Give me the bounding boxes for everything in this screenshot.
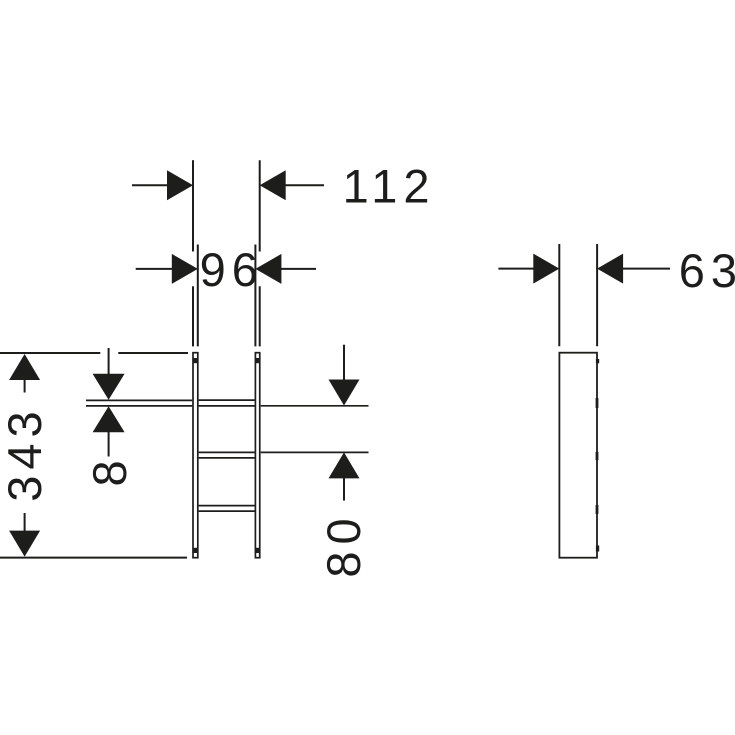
extension line 63 right — [596, 244, 598, 346]
rung1 left extension (8 dim) — [86, 399, 192, 401]
dimension 96 left tail — [136, 268, 173, 270]
arrowhead 96 left — [172, 254, 198, 284]
side view body — [559, 353, 597, 558]
extension line 63 left — [558, 244, 560, 346]
extension line 96 right — [254, 245, 256, 347]
dimension 96 right tail — [280, 268, 316, 270]
svg-text:63: 63 — [679, 244, 735, 297]
arrowhead 8 upper — [93, 374, 125, 400]
side view rung 3 edge — [596, 505, 599, 514]
dimension 63 left tail — [498, 268, 534, 270]
extension line 343 bottom — [0, 557, 187, 559]
svg-text:112: 112 — [343, 159, 436, 212]
screw hole bottom-left — [193, 548, 199, 553]
arrowhead 80 upper — [329, 380, 360, 406]
extension line 112 right upper — [259, 160, 261, 251]
80 dim extension right lower — [261, 451, 369, 453]
screw hole bottom-right — [255, 548, 261, 553]
side view screw hole top — [596, 359, 599, 363]
svg-text:96: 96 — [200, 243, 264, 296]
rung 1 — [199, 399, 255, 401]
dimension 112 right tail — [285, 184, 324, 186]
dimension 112 left tail — [132, 184, 169, 186]
front view: right rail — [255, 353, 259, 558]
side view screw hole bottom — [596, 546, 599, 552]
dimension 63 right tail — [622, 268, 670, 270]
screw hole top-right — [255, 358, 261, 363]
dimension 343 line upper — [24, 379, 26, 393]
extension line 96 left — [197, 245, 199, 347]
arrowhead 343 bottom — [9, 531, 40, 557]
80 dim extension right upper — [261, 405, 369, 407]
dimension 80 line upper — [343, 345, 345, 381]
arrowhead 8 lower — [93, 406, 125, 432]
extension line 112 left upper — [192, 160, 194, 251]
dimension 343 line lower — [24, 513, 26, 532]
arrowhead 80 lower — [329, 452, 360, 478]
arrowhead 96 right — [255, 254, 281, 284]
front view: left rail — [86, 353, 369, 558]
screw hole top-left — [193, 358, 199, 363]
rung 3 — [199, 505, 255, 507]
extension line 112 right lower — [259, 286, 261, 346]
dimension 8 line lower — [108, 431, 110, 457]
arrowhead 63 left — [533, 254, 559, 284]
extension line 343 top — [0, 352, 100, 354]
arrowhead 112 right — [260, 170, 286, 200]
dimension 80 line lower — [343, 477, 345, 500]
side view rung 2 edge — [596, 452, 599, 460]
svg-text:8: 8 — [83, 454, 136, 486]
arrowhead 343 top — [9, 354, 40, 380]
arrowhead 63 right — [597, 254, 623, 284]
rung 2 — [199, 451, 255, 453]
svg-text:80: 80 — [317, 511, 370, 577]
svg-text:343: 343 — [0, 405, 51, 501]
dimension 8 line upper — [108, 348, 110, 375]
arrowhead 112 left — [167, 170, 193, 200]
side view rung 1 edge — [596, 398, 599, 408]
extension line 112 left lower — [192, 286, 194, 346]
